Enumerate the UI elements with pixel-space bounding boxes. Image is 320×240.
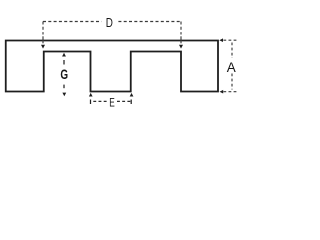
D right arrow xyxy=(179,45,183,49)
G up arrow xyxy=(62,53,66,57)
E left extension tick xyxy=(90,100,92,105)
E right extension tick xyxy=(130,100,132,105)
dimension A: right side xyxy=(223,40,236,91)
svg-text:A: A xyxy=(227,59,237,75)
E right up arrow xyxy=(130,93,134,97)
svg-text:G: G xyxy=(60,66,68,82)
D right extension line xyxy=(180,22,182,35)
D left arrow xyxy=(41,45,45,49)
G dash above label xyxy=(63,60,65,65)
D left extension line xyxy=(42,22,44,35)
svg-text:E: E xyxy=(109,97,115,110)
dimension D: horizontal dashed line at top xyxy=(43,22,181,44)
G down arrow xyxy=(62,93,66,97)
svg-text:D: D xyxy=(106,17,113,30)
E dashed dimension line xyxy=(93,100,130,102)
A bottom arrow xyxy=(220,90,224,94)
A top arrow xyxy=(219,38,223,42)
G dash below label xyxy=(63,85,65,89)
E left up arrow xyxy=(89,93,93,97)
E-core body outline xyxy=(6,41,218,92)
